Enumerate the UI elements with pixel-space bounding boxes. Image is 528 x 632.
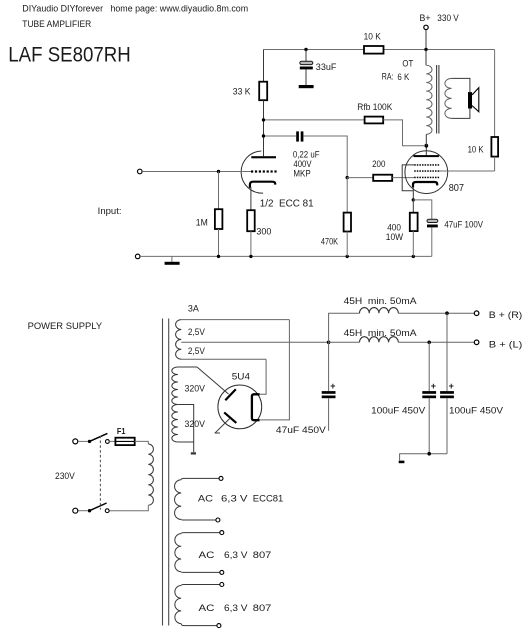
svg-text:807: 807 <box>449 183 465 194</box>
svg-text:1/2 ECC 81: 1/2 ECC 81 <box>260 198 314 209</box>
svg-text:2,5V: 2,5V <box>188 346 205 356</box>
junction dot B+ rail <box>424 48 427 51</box>
svg-text:Input:: Input: <box>98 206 122 216</box>
svg-text:B+: B+ <box>420 13 431 23</box>
choke L1 45H B+(R) <box>329 296 475 343</box>
choke L2 45H B+(L) <box>329 328 475 342</box>
terminal input bottom <box>135 254 140 259</box>
wire filter ground rail <box>400 454 447 461</box>
svg-text:33uF: 33uF <box>316 62 337 72</box>
junction dot 33uF node <box>304 48 307 51</box>
svg-text:10 K: 10 K <box>364 31 381 41</box>
svg-text:+: + <box>449 381 454 391</box>
junction dot grid node <box>217 170 220 173</box>
svg-text:200: 200 <box>372 159 385 169</box>
resistor 470K <box>321 178 351 257</box>
svg-text:LAF SE807RH: LAF SE807RH <box>8 43 130 66</box>
svg-text:45H min. 50mA: 45H min. 50mA <box>344 296 417 306</box>
svg-text:AC: AC <box>198 494 214 504</box>
resistor 10K plate supply <box>364 31 384 53</box>
ground HV center tap <box>191 452 196 454</box>
svg-text:ECC81: ECC81 <box>253 494 284 504</box>
wire filament loop right <box>260 320 290 420</box>
wire plate node stem <box>263 100 265 156</box>
fuse F1 <box>109 426 134 445</box>
svg-text:OT: OT <box>402 59 413 69</box>
svg-text:10 K: 10 K <box>468 144 484 154</box>
wire cathode 807 <box>412 187 414 200</box>
wire screen grid to 10K <box>439 170 495 172</box>
svg-text:AC: AC <box>199 550 216 560</box>
wire anode 2 lead <box>215 418 231 433</box>
svg-text:807: 807 <box>253 550 272 560</box>
svg-text:33 K: 33 K <box>233 87 251 97</box>
svg-text:2,5V: 2,5V <box>188 327 205 337</box>
svg-text:6,3 V: 6,3 V <box>224 550 248 560</box>
dashed gang link <box>99 436 101 510</box>
wire bottom rail <box>140 255 432 257</box>
power transformer core <box>163 319 169 626</box>
wire B+ top rail <box>264 49 495 51</box>
svg-text:B + (R): B + (R) <box>489 310 523 320</box>
junction dot 807 grid node <box>346 176 349 179</box>
resistor Rfb 100K <box>265 102 424 146</box>
capacitor 0.22uF coupling <box>265 131 347 178</box>
winding primary 230V <box>148 444 153 505</box>
svg-text:45H min. 50mA: 45H min. 50mA <box>344 328 417 338</box>
svg-text:47uF 450V: 47uF 450V <box>276 425 326 435</box>
junction dot choke1 to cap <box>445 311 449 315</box>
output transformer OT primary <box>382 50 432 146</box>
svg-text:100uF 450V: 100uF 450V <box>371 406 425 416</box>
svg-text:320V: 320V <box>185 384 205 394</box>
svg-text:1M: 1M <box>196 218 208 228</box>
svg-text:6,3 V: 6,3 V <box>224 603 248 613</box>
rectifier 5U4 <box>218 371 262 428</box>
svg-text:DIYaudio DIYforever home pag: DIYaudio DIYforever home page: www.diyau… <box>22 3 248 13</box>
svg-text:100uF 450V: 100uF 450V <box>449 406 503 416</box>
terminal B+ (L) <box>474 339 522 349</box>
svg-text:+: + <box>431 381 436 391</box>
junction dot Rfb node <box>262 118 265 121</box>
output transformer OT core <box>437 65 439 134</box>
capacitor 33uF <box>300 50 337 86</box>
ground PS filter <box>399 461 405 464</box>
terminal B+ (R) <box>474 310 522 320</box>
tube V2 807 <box>405 147 464 194</box>
junction dots bottom rail <box>217 255 415 258</box>
junction dot choke2 to cap <box>427 341 431 345</box>
winding 6.3V 807 second <box>175 583 272 628</box>
ground input <box>165 256 180 263</box>
junction dot coupling node <box>262 134 265 137</box>
svg-text:10W: 10W <box>386 232 404 242</box>
wire primary bottom to switch <box>109 505 148 511</box>
junction dot ground rail <box>427 452 431 456</box>
junction dot cathode 807 <box>412 198 415 201</box>
switch S1 lower pole <box>78 503 109 513</box>
winding 320V HV <box>172 367 205 452</box>
resistor 400 10W <box>386 200 418 257</box>
terminal mains lower <box>73 508 78 513</box>
svg-text:807: 807 <box>253 603 272 613</box>
svg-text:6,3 V: 6,3 V <box>221 494 248 504</box>
svg-text:B + (L): B + (L) <box>489 339 523 349</box>
terminal input top <box>138 169 252 174</box>
wire 33K stem top <box>263 50 265 82</box>
svg-text:MKP: MKP <box>293 168 310 178</box>
capacitor 47uF 450V <box>276 342 336 435</box>
svg-text:320V: 320V <box>185 419 205 429</box>
output transformer OT secondary <box>445 78 470 118</box>
wire anode 1 lead <box>197 367 229 394</box>
tube U1 1/2 ECC81 <box>241 151 314 209</box>
resistor 33K <box>233 82 267 101</box>
wire beam plate bracket <box>402 165 414 191</box>
svg-text:3A: 3A <box>188 304 199 314</box>
svg-text:470K: 470K <box>321 236 338 246</box>
capacitor 100uF 450V (R) <box>440 313 503 454</box>
svg-text:TUBE AMPLIFIER: TUBE AMPLIFIER <box>22 19 91 29</box>
resistor 300 cathode <box>247 187 271 256</box>
winding 2.5V rectifier filament <box>176 320 329 360</box>
svg-text:47uF 100V: 47uF 100V <box>444 220 483 230</box>
label B+ 330 V <box>420 13 459 23</box>
terminal mains upper <box>73 439 78 444</box>
switch S1 upper pole <box>78 433 110 443</box>
capacitor 47uF 100V <box>413 200 483 257</box>
svg-text:F1: F1 <box>117 426 126 436</box>
svg-text:AC: AC <box>199 603 216 613</box>
winding 6.3V 807 first <box>175 531 272 575</box>
junction dot B+ node <box>327 341 331 345</box>
resistor 10K screen <box>468 50 499 172</box>
resistor 1M <box>196 172 223 257</box>
svg-text:POWER SUPPLY: POWER SUPPLY <box>28 321 103 331</box>
svg-text:+: + <box>330 381 335 391</box>
svg-text:5U4: 5U4 <box>232 371 250 381</box>
svg-text:300: 300 <box>256 227 271 237</box>
winding 6.3V ECC81 <box>175 476 284 522</box>
ground 33uF <box>299 85 314 88</box>
svg-text:Rfb 100K: Rfb 100K <box>357 102 392 112</box>
terminal B+ <box>424 25 428 49</box>
svg-text:230V: 230V <box>55 471 75 481</box>
capacitor 100uF 450V (L) <box>371 342 436 453</box>
wire filament loop left <box>260 359 267 394</box>
resistor 200 grid stopper <box>347 159 414 181</box>
junction dot plate 807 node <box>424 144 428 148</box>
svg-text:6 K: 6 K <box>397 72 409 82</box>
wire fuse to primary <box>135 441 149 444</box>
svg-text:0,22 uF: 0,22 uF <box>293 149 320 159</box>
speaker <box>468 88 479 112</box>
svg-text:330 V: 330 V <box>437 13 459 23</box>
svg-text:RA:: RA: <box>382 72 394 82</box>
